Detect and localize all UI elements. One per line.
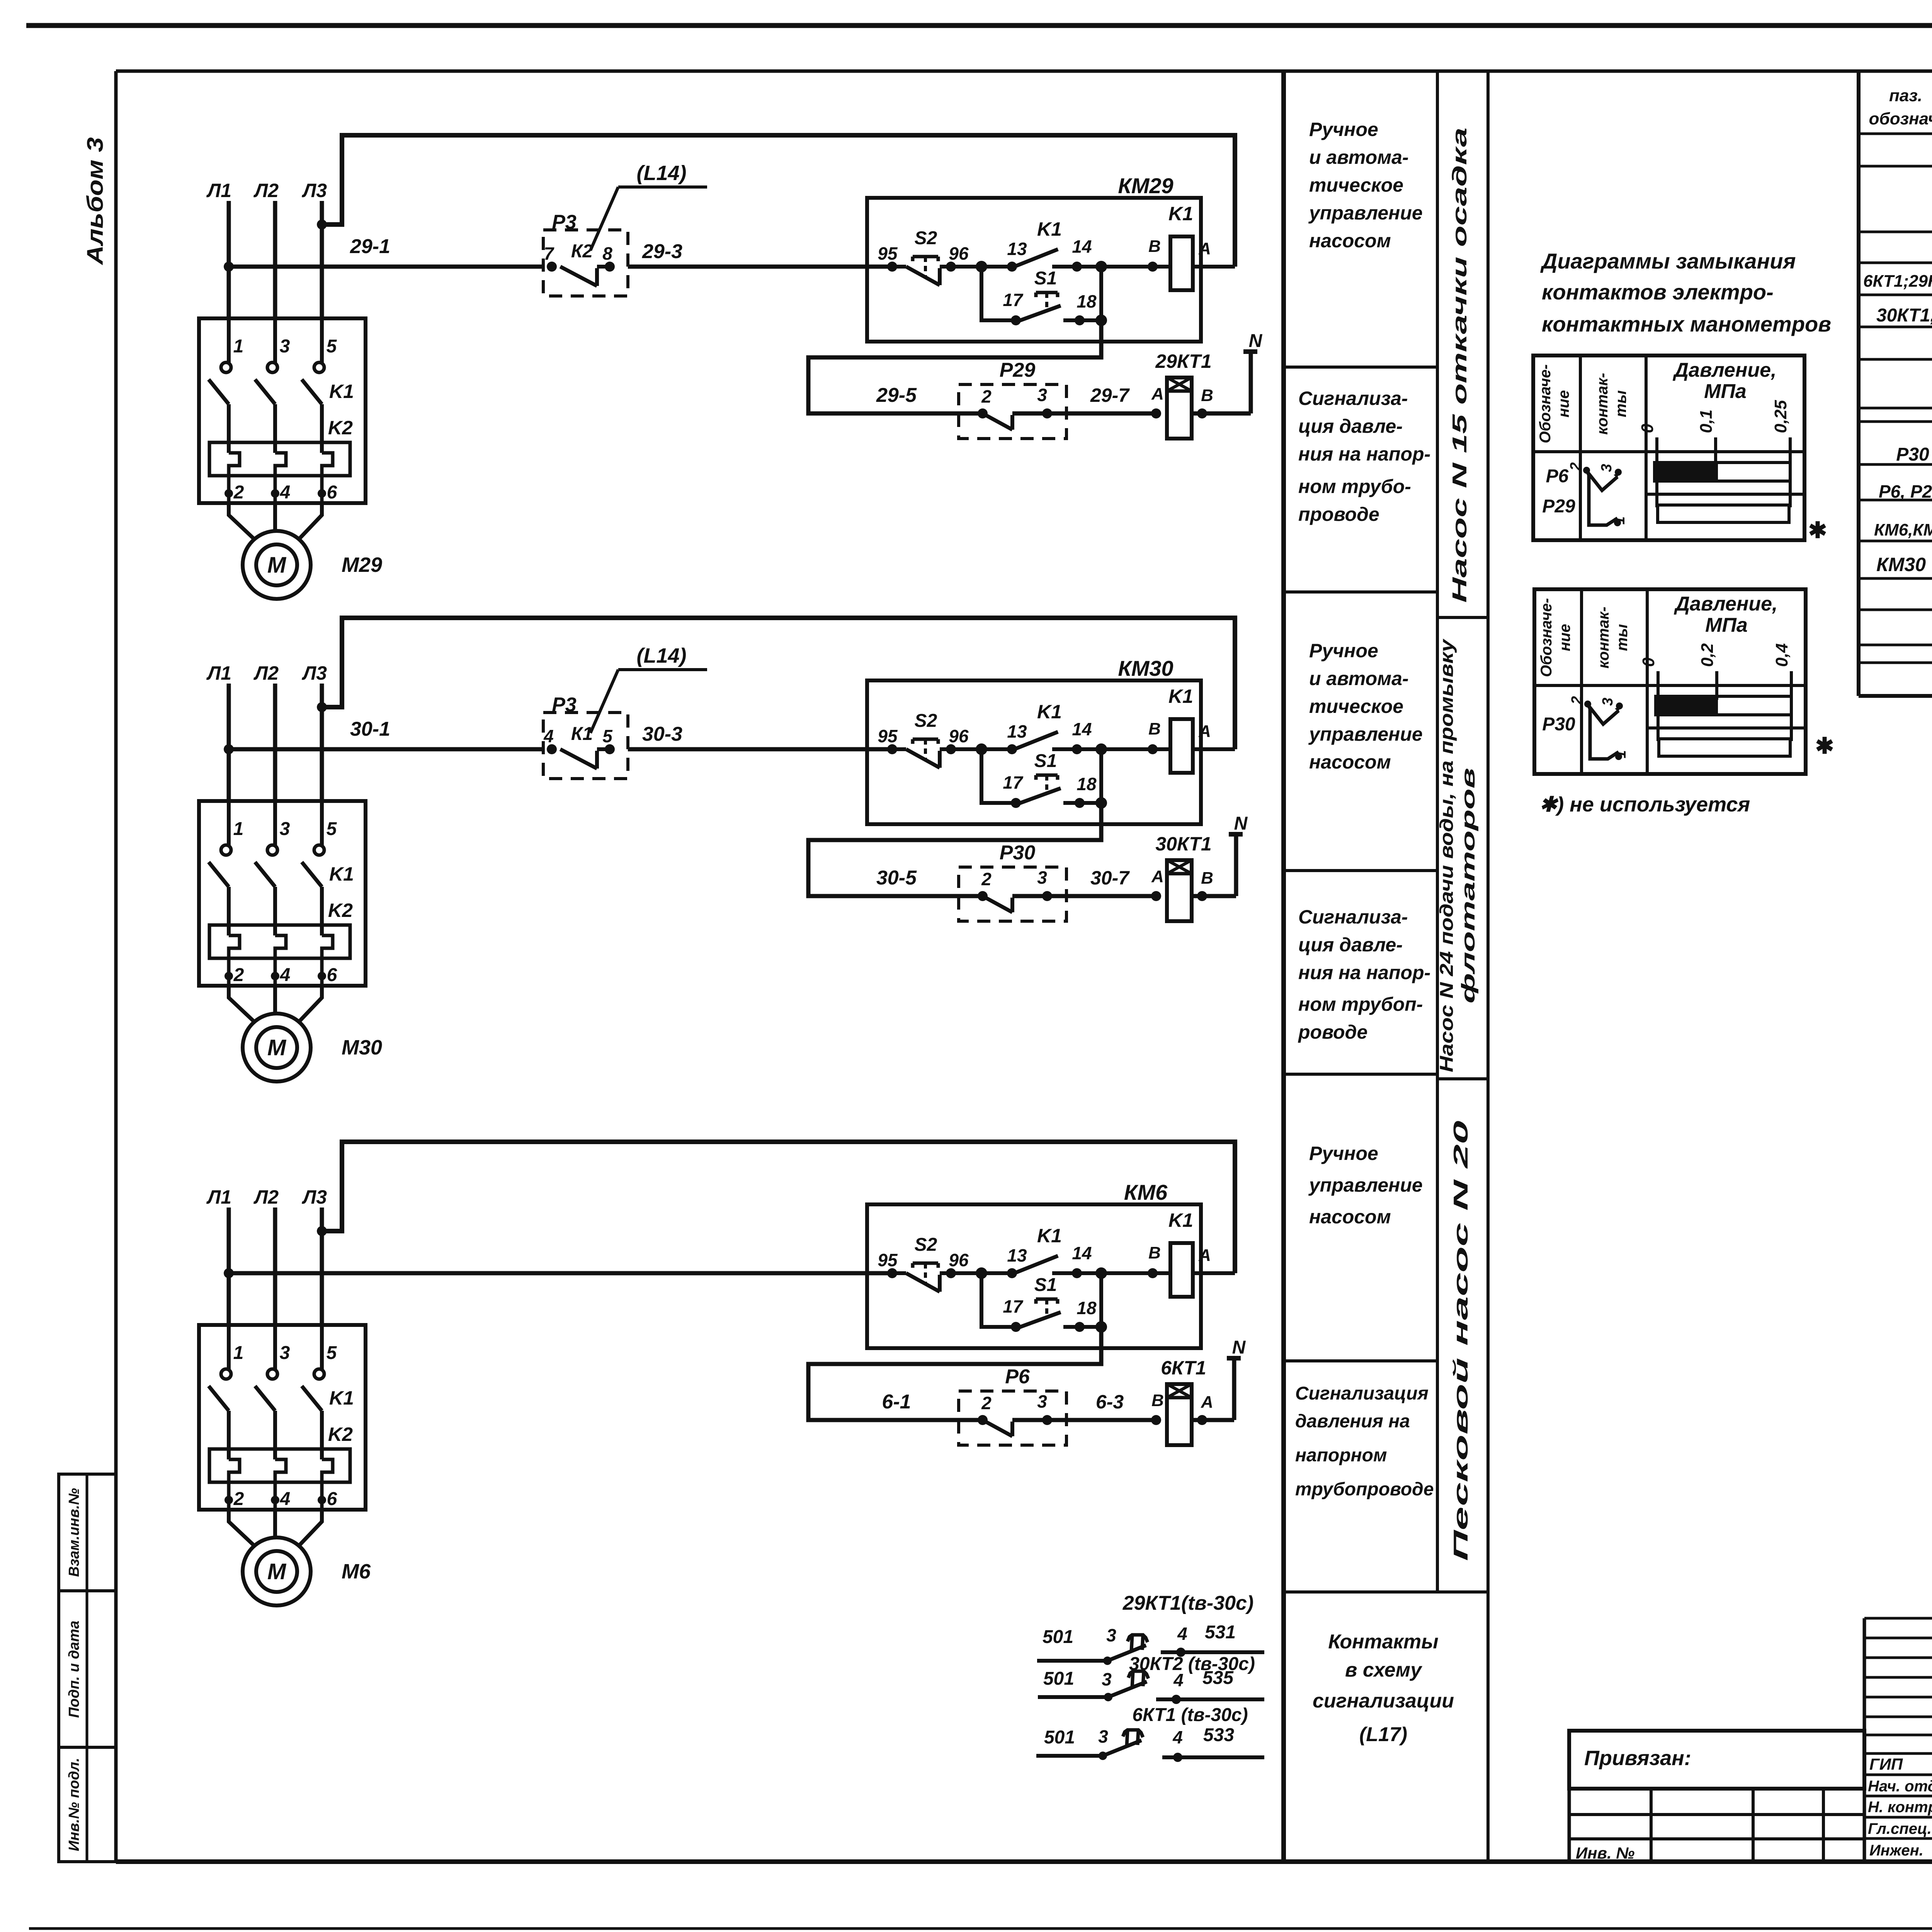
svg-text:3: 3 — [1106, 1625, 1116, 1645]
svg-text:501: 501 — [1044, 1727, 1075, 1748]
wire L3 to top bus (КМ6) — [322, 1142, 1235, 1273]
main contact 5-6 (КМ6) — [302, 1325, 337, 1510]
svg-text:17: 17 — [1003, 1296, 1024, 1316]
signature table columns — [1864, 1618, 1932, 1862]
svg-text:6КТ1;29КТ1,: 6КТ1;29КТ1, — [1863, 272, 1932, 291]
magnetic starter КМ30 control box — [867, 656, 1201, 824]
P3 contact 7-8 (К2) — [544, 241, 615, 286]
svg-text:М29: М29 — [342, 553, 382, 577]
motor М29 — [243, 531, 382, 599]
svg-text:5: 5 — [602, 726, 613, 746]
svg-text:29-1: 29-1 — [350, 235, 390, 258]
svg-text:B: B — [1148, 237, 1161, 256]
signal contact row 501-535 (30KT2) — [1038, 1668, 1264, 1704]
contact group label K2 (КМ29) — [328, 417, 353, 439]
svg-text:контак-: контак- — [1595, 607, 1612, 668]
svg-text:Инв.№ подл.: Инв.№ подл. — [66, 1758, 82, 1851]
svg-text:Л3: Л3 — [302, 1186, 327, 1208]
Р29 contact 2-3 — [978, 384, 1156, 430]
svg-text:14: 14 — [1072, 1243, 1092, 1263]
signal contact 6KT1 header — [1132, 1705, 1248, 1725]
wire 29-1 — [229, 235, 543, 267]
svg-text:давления на: давления на — [1295, 1411, 1410, 1432]
svg-text:K2: K2 — [328, 1423, 353, 1445]
row: relay KT designators — [1863, 267, 1932, 291]
svg-text:6-1: 6-1 — [882, 1391, 911, 1413]
svg-text:Р30: Р30 — [1542, 714, 1575, 735]
node L3 tap (КМ6) — [317, 1226, 327, 1236]
svg-text:Давление,: Давление, — [1672, 359, 1776, 381]
svg-text:Л3: Л3 — [302, 662, 327, 684]
cell: manual and automatic pump control (N15) — [1308, 119, 1423, 252]
svg-text:4: 4 — [280, 1489, 291, 1509]
svg-text:ном трубоп-: ном трубоп- — [1298, 993, 1423, 1015]
svg-text:B: B — [1148, 719, 1161, 738]
svg-text:Л1: Л1 — [206, 1186, 231, 1208]
motor leads (КМ29) — [229, 503, 322, 540]
start button S1 17-18 branch (КМ29) — [981, 267, 1107, 326]
svg-text:3: 3 — [1037, 867, 1047, 888]
cell: manual and automatic pump control (N24) — [1308, 640, 1423, 773]
auxiliary contact K1 13-14 (КМ29) — [976, 218, 1170, 272]
svg-text:тическое: тическое — [1309, 174, 1403, 196]
svg-text:Альбом 3: Альбом 3 — [83, 137, 108, 265]
svg-text:13: 13 — [1007, 1245, 1027, 1265]
svg-text:Р6, Р29: Р6, Р29 — [1879, 481, 1932, 502]
asterisk mark 1 — [1808, 518, 1827, 543]
svg-text:501: 501 — [1043, 1627, 1073, 1647]
svg-text:B: B — [1151, 1391, 1164, 1410]
svg-text:S2: S2 — [915, 228, 937, 248]
svg-text:К2: К2 — [571, 241, 593, 262]
interlock contact P3 (К2) dashed box — [543, 211, 628, 296]
auxiliary contact K1 13-14 (КМ30) — [976, 701, 1170, 755]
pressure switch contact Р29 dashed box — [959, 359, 1066, 439]
svg-text:Р29: Р29 — [1542, 496, 1575, 517]
svg-text:ция давле-: ция давле- — [1298, 934, 1403, 956]
svg-text:N: N — [1232, 1337, 1246, 1358]
svg-text:3: 3 — [1600, 697, 1616, 706]
svg-text:4: 4 — [280, 482, 291, 503]
phase label L3 (КМ29) — [302, 180, 327, 201]
svg-text:A: A — [1198, 1246, 1211, 1265]
svg-text:обознач.: обознач. — [1869, 109, 1932, 128]
contactor coil K1 (КМ6) — [1148, 1209, 1235, 1297]
svg-text:2: 2 — [1569, 696, 1585, 704]
signature table rows — [1864, 1618, 1932, 1838]
margin cell Vzam.inv.N — [59, 1474, 116, 1591]
svg-text:М: М — [267, 1035, 287, 1060]
wire 29-5 loop (КМ29) — [808, 320, 1101, 413]
parts table headers — [1869, 86, 1932, 128]
svg-text:(L14): (L14) — [636, 162, 686, 185]
svg-text:2: 2 — [233, 1489, 244, 1509]
svg-text:Р3: Р3 — [552, 211, 577, 233]
svg-text:29КТ1(tв-30с): 29КТ1(tв-30с) — [1122, 1592, 1254, 1614]
svg-text:Ручное: Ручное — [1309, 1143, 1378, 1164]
parts table outer and columns — [1859, 71, 1932, 696]
svg-text:и автома-: и автома- — [1309, 668, 1409, 689]
svg-text:управление: управление — [1308, 1174, 1423, 1196]
margin cell Podp. i data — [59, 1591, 116, 1747]
wire 6-1 loop (КМ6) — [808, 1327, 1101, 1420]
neutral N riser (КМ6) — [1227, 1337, 1246, 1420]
svg-text:Р6: Р6 — [1005, 1366, 1030, 1388]
svg-text:N: N — [1234, 813, 1248, 834]
svg-text:501: 501 — [1043, 1668, 1074, 1689]
svg-text:КМ6,КМ29: КМ6,КМ29 — [1874, 520, 1932, 539]
svg-text:2: 2 — [981, 1393, 992, 1413]
rotated label pump N24 — [1437, 638, 1479, 1072]
svg-text:13: 13 — [1007, 721, 1027, 742]
svg-text:флотаторов: флотаторов — [1458, 768, 1479, 1003]
svg-text:МПа: МПа — [1705, 614, 1748, 636]
svg-text:проводе: проводе — [1298, 503, 1379, 525]
svg-text:7: 7 — [544, 243, 554, 264]
svg-text:30-3: 30-3 — [642, 723, 682, 745]
svg-text:насосом: насосом — [1309, 751, 1391, 773]
svg-text:95: 95 — [878, 726, 898, 746]
svg-text:ния на напор-: ния на напор- — [1298, 443, 1430, 465]
svg-text:531: 531 — [1205, 1622, 1236, 1643]
svg-text:М: М — [267, 1559, 287, 1584]
main contact 1-2 (КМ30) — [209, 801, 244, 986]
svg-text:Р3: Р3 — [552, 694, 577, 716]
description column row lines — [1284, 367, 1488, 1592]
svg-text:Ручное: Ручное — [1309, 640, 1378, 662]
auxiliary contact K1 13-14 (КМ6) — [976, 1225, 1170, 1279]
svg-text:ты: ты — [1612, 390, 1629, 417]
main contact 1-2 (КМ29) — [209, 318, 244, 503]
svg-text:96: 96 — [949, 243, 969, 264]
node L1 tap (КМ6) — [224, 1268, 234, 1278]
svg-text:3: 3 — [280, 819, 290, 839]
svg-text:управление: управление — [1308, 202, 1423, 224]
svg-text:17: 17 — [1003, 290, 1024, 310]
svg-text:30КТ2 (tв-30с): 30КТ2 (tв-30с) — [1129, 1654, 1255, 1674]
svg-text:Давление,: Давление, — [1673, 593, 1777, 615]
svg-text:Контакты: Контакты — [1328, 1631, 1438, 1653]
svg-text:18: 18 — [1077, 291, 1097, 311]
svg-text:6-3: 6-3 — [1096, 1391, 1124, 1413]
svg-text:тическое: тическое — [1309, 696, 1403, 717]
phase label L2 (КМ6) — [253, 1186, 279, 1208]
svg-text:13: 13 — [1007, 239, 1027, 259]
phase wires L1 L2 L3 (КМ6) — [229, 1207, 322, 1327]
pressure switch contact Р6 dashed box — [959, 1366, 1066, 1445]
thermal overload element (КМ29) — [209, 442, 350, 476]
node L1 tap (КМ29) — [224, 262, 234, 272]
row: KM6 KM29 starter — [1874, 512, 1932, 539]
svg-text:2: 2 — [233, 482, 244, 503]
row: P6 P29 manometer — [1879, 476, 1932, 502]
phase label L2 (КМ30) — [253, 662, 279, 684]
svg-text:6: 6 — [327, 1489, 337, 1509]
svg-text:29-7: 29-7 — [1090, 384, 1130, 406]
svg-text:K2: K2 — [328, 900, 353, 921]
svg-text:напорном: напорном — [1295, 1445, 1387, 1466]
svg-text:5: 5 — [327, 336, 337, 357]
svg-text:контак-: контак- — [1594, 373, 1611, 435]
asterisk mark 2 — [1815, 733, 1834, 759]
description column separators — [1284, 71, 1488, 1862]
contactor coil K1 (КМ30) — [1148, 685, 1235, 773]
svg-text:30КТ1: 30КТ1 — [1155, 833, 1211, 855]
start button S1 17-18 branch (КМ6) — [981, 1273, 1107, 1333]
svg-text:Песковой насос N 20: Песковой насос N 20 — [1450, 1121, 1472, 1561]
motor leads (КМ6) — [229, 1510, 322, 1547]
svg-text:29-3: 29-3 — [642, 240, 682, 263]
svg-text:Подп. и дата: Подп. и дата — [66, 1621, 82, 1718]
svg-text:Л2: Л2 — [253, 662, 279, 684]
svg-text:М6: М6 — [342, 1560, 371, 1583]
svg-text:3: 3 — [1102, 1669, 1112, 1689]
svg-text:Р6: Р6 — [1546, 466, 1569, 486]
asterisk note — [1539, 793, 1750, 816]
svg-text:Л2: Л2 — [253, 180, 279, 201]
svg-text:Р30: Р30 — [1000, 842, 1036, 864]
svg-text:2: 2 — [1568, 462, 1584, 471]
svg-text:95: 95 — [878, 1250, 898, 1270]
svg-text:М: М — [267, 553, 287, 578]
svg-text:3: 3 — [1599, 464, 1615, 472]
time relay coil 30КТ1 — [1151, 833, 1236, 921]
svg-text:роводе: роводе — [1298, 1021, 1367, 1043]
svg-text:насосом: насосом — [1309, 1206, 1391, 1228]
svg-text:ГИП: ГИП — [1869, 1755, 1903, 1773]
svg-text:K1: K1 — [1037, 1225, 1062, 1247]
svg-text:2: 2 — [233, 965, 244, 985]
pressure diagram table P6/P29 — [1533, 355, 1804, 540]
svg-text:535: 535 — [1202, 1668, 1234, 1688]
power contacts box КМ29 — [199, 318, 366, 503]
contact group label K1 (КМ29) — [329, 381, 354, 402]
node L3 tap (КМ29) — [317, 219, 327, 230]
svg-text:K1: K1 — [329, 1387, 354, 1409]
main contact 3-4 (КМ30) — [255, 801, 290, 986]
svg-text:4: 4 — [280, 965, 291, 985]
svg-text:3: 3 — [1098, 1726, 1108, 1747]
pressure switch contact Р30 dashed box — [959, 842, 1066, 921]
svg-text:30-1: 30-1 — [350, 718, 390, 740]
svg-text:K1: K1 — [329, 381, 354, 402]
row: KM30 — [1876, 549, 1932, 575]
phase label L1 (КМ30) — [206, 662, 231, 684]
cell: manual pump control (N20) — [1308, 1143, 1423, 1228]
wire L1 to contactor coil box (КМ6) — [229, 1271, 892, 1276]
phase label L1 (КМ29) — [206, 180, 231, 201]
svg-text:Взам.инв.№: Взам.инв.№ — [66, 1488, 82, 1577]
diagrams heading text — [1540, 249, 1831, 336]
thermal overload element (КМ30) — [209, 925, 350, 958]
svg-text:A: A — [1151, 384, 1164, 403]
main contact 1-2 (КМ6) — [209, 1325, 244, 1510]
cell: pressure signalling (N15) — [1298, 388, 1430, 525]
svg-text:✱: ✱ — [1815, 733, 1834, 759]
svg-text:контактных манометров: контактных манометров — [1542, 312, 1831, 336]
svg-text:ние: ние — [1556, 624, 1573, 651]
svg-text:S1: S1 — [1034, 1275, 1057, 1295]
interlock contact P3 (К1) dashed box — [543, 694, 628, 779]
svg-text:6КТ1 (tв-30с): 6КТ1 (tв-30с) — [1132, 1705, 1248, 1725]
pressure diagram table P30 — [1534, 589, 1806, 774]
wire 30-3 — [628, 723, 892, 749]
album label — [83, 137, 108, 265]
main contact 5-6 (КМ30) — [302, 801, 337, 986]
svg-text:КМ29: КМ29 — [1118, 173, 1173, 198]
svg-text:Обозначе-: Обозначе- — [1537, 364, 1554, 444]
svg-text:A: A — [1198, 722, 1211, 741]
svg-text:насосом: насосом — [1309, 230, 1391, 252]
svg-text:1: 1 — [233, 819, 244, 839]
svg-text:К1: К1 — [571, 724, 593, 744]
wire 29-3 — [628, 240, 892, 267]
svg-text:0,4: 0,4 — [1772, 643, 1791, 667]
svg-text:Инв. №: Инв. № — [1576, 1844, 1634, 1862]
wire L3 to top bus (КМ29) — [322, 135, 1235, 267]
svg-text:B: B — [1201, 869, 1213, 888]
motor leads (КМ30) — [229, 986, 322, 1023]
contact group label K1 (КМ6) — [329, 1387, 354, 1409]
svg-text:A: A — [1201, 1393, 1213, 1412]
svg-text:✱: ✱ — [1808, 518, 1827, 543]
phase label L3 (КМ30) — [302, 662, 327, 684]
svg-text:4: 4 — [543, 726, 554, 746]
svg-text:0: 0 — [1638, 423, 1657, 433]
thermal overload element (КМ6) — [209, 1449, 350, 1482]
svg-text:контактов электро-: контактов электро- — [1542, 280, 1774, 304]
svg-text:Сигнализа-: Сигнализа- — [1298, 388, 1408, 409]
svg-text:4: 4 — [1173, 1670, 1184, 1690]
svg-text:K1: K1 — [1168, 1209, 1193, 1231]
phase wires L1 L2 L3 (КМ30) — [229, 684, 322, 803]
svg-text:96: 96 — [949, 1250, 969, 1270]
svg-text:Л1: Л1 — [206, 180, 231, 201]
svg-text:ция давле-: ция давле- — [1298, 415, 1403, 437]
svg-text:K1: K1 — [329, 863, 354, 885]
margin cell Inv.N podl. — [59, 1747, 116, 1862]
stop button S2 (КМ30) — [878, 711, 1012, 768]
parts table row lines — [1859, 134, 1932, 663]
svg-text:8: 8 — [602, 243, 612, 264]
stop button S2 (КМ29) — [878, 228, 1012, 285]
svg-text:S1: S1 — [1034, 751, 1057, 771]
magnetic starter КМ29 control box — [867, 173, 1201, 342]
phase label L3 (КМ6) — [302, 1186, 327, 1208]
svg-text:Насос N 24 подачи воды, на п: Насос N 24 подачи воды, на промывку — [1437, 638, 1457, 1072]
svg-text:2: 2 — [981, 869, 992, 889]
cell: pressure signalling (N20) — [1295, 1383, 1434, 1500]
sheet top border line — [26, 23, 1932, 28]
svg-text:Сигнализа-: Сигнализа- — [1298, 906, 1408, 928]
svg-text:ние: ние — [1555, 390, 1572, 418]
svg-text:K1: K1 — [1168, 203, 1193, 224]
reference (L14) leader (КМ29) — [590, 162, 707, 250]
svg-text:30-7: 30-7 — [1090, 867, 1130, 889]
svg-text:N: N — [1249, 331, 1263, 351]
svg-text:14: 14 — [1072, 236, 1092, 257]
svg-text:Сигнализация: Сигнализация — [1295, 1383, 1429, 1404]
svg-text:6: 6 — [327, 482, 337, 503]
svg-text:5: 5 — [327, 819, 337, 839]
node L3 tap (КМ30) — [317, 702, 327, 712]
svg-text:18: 18 — [1077, 774, 1097, 794]
svg-text:29-5: 29-5 — [876, 384, 917, 406]
svg-text:S1: S1 — [1034, 268, 1057, 289]
contactor coil K1 (КМ29) — [1148, 203, 1235, 290]
svg-text:паз.: паз. — [1889, 86, 1922, 105]
time relay coil 29КТ1 — [1151, 350, 1251, 439]
node L1 tap (КМ30) — [224, 744, 234, 754]
svg-text:K1: K1 — [1037, 218, 1062, 240]
svg-text:Инжен.: Инжен. — [1869, 1842, 1923, 1859]
bottom reference rule — [29, 1927, 1932, 1930]
phase label L1 (КМ6) — [206, 1186, 231, 1208]
wire 30-5 loop (КМ30) — [808, 803, 1101, 896]
svg-text:ты: ты — [1614, 624, 1631, 651]
svg-text:95: 95 — [878, 243, 898, 264]
svg-text:3: 3 — [1037, 385, 1047, 405]
svg-text:29КТ1: 29КТ1 — [1155, 350, 1211, 372]
contact group label K2 (КМ6) — [328, 1423, 353, 1445]
time relay coil 6КТ1 — [1151, 1357, 1234, 1445]
cell: contacts to signalling circuit (L17) — [1313, 1631, 1454, 1746]
row: relay KT type — [1876, 300, 1932, 326]
main contact 3-4 (КМ29) — [255, 318, 290, 503]
signal contact 29KT1 header — [1122, 1592, 1254, 1614]
wire 30-1 — [229, 718, 543, 749]
rotated label pump N15 — [1449, 128, 1471, 603]
svg-text:КМ30: КМ30 — [1118, 656, 1173, 680]
svg-text:и автома-: и автома- — [1309, 146, 1409, 168]
svg-text:МПа: МПа — [1704, 380, 1747, 403]
svg-text:18: 18 — [1077, 1298, 1097, 1318]
start button S1 17-18 branch (КМ30) — [981, 749, 1107, 809]
svg-text:3: 3 — [280, 336, 290, 357]
P3 contact 4-5 (К1) — [543, 724, 615, 769]
svg-text:30-5: 30-5 — [876, 867, 917, 889]
svg-text:Л2: Л2 — [253, 1186, 279, 1208]
main contact 3-4 (КМ6) — [255, 1325, 290, 1510]
svg-text:3: 3 — [280, 1343, 290, 1363]
neutral N riser (КМ29) — [1243, 331, 1263, 413]
svg-text:Ручное: Ручное — [1309, 119, 1378, 140]
signal contact row 501-531 (29KT1) — [1037, 1622, 1264, 1665]
svg-text:(L14): (L14) — [636, 644, 686, 667]
svg-text:0,1: 0,1 — [1697, 410, 1716, 433]
svg-text:6: 6 — [327, 965, 337, 985]
svg-text:ния на напор-: ния на напор- — [1298, 962, 1430, 983]
svg-text:сигнализации: сигнализации — [1313, 1690, 1454, 1712]
svg-text:Диаграммы замыкания: Диаграммы замыкания — [1540, 249, 1796, 273]
svg-text:(L17): (L17) — [1359, 1723, 1407, 1746]
svg-text:S2: S2 — [915, 1235, 937, 1255]
svg-text:3: 3 — [1037, 1391, 1047, 1412]
svg-text:4: 4 — [1172, 1727, 1183, 1747]
phase wires L1 L2 L3 (КМ29) — [229, 201, 322, 320]
svg-text:0,2: 0,2 — [1698, 643, 1717, 667]
stop button S2 (КМ6) — [878, 1235, 1012, 1292]
svg-text:A: A — [1198, 239, 1211, 258]
signal contact row 501-533 (6KT1) — [1036, 1725, 1264, 1762]
reference (L14) leader (КМ30) — [590, 644, 707, 733]
signal contact 30KT2 header — [1129, 1654, 1255, 1674]
row: P30 manometer — [1896, 439, 1932, 465]
svg-text:A: A — [1151, 867, 1164, 886]
svg-text:Привязан:: Привязан: — [1584, 1747, 1691, 1770]
svg-text:K2: K2 — [328, 417, 353, 439]
svg-text:2: 2 — [981, 386, 992, 406]
